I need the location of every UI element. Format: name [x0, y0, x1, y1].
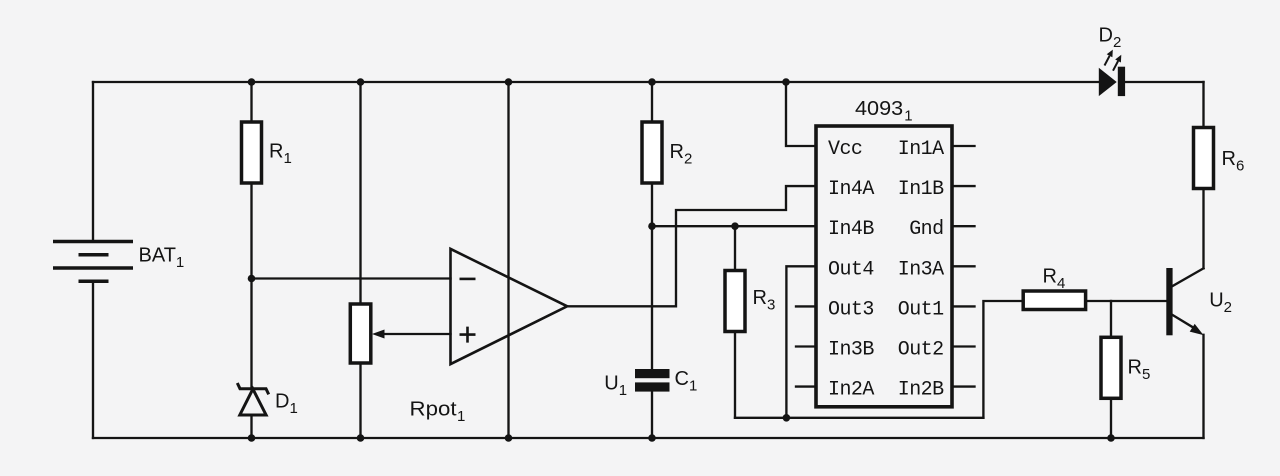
resistor R4: [1023, 291, 1085, 310]
wire top to Rpot1: [359, 82, 361, 304]
wire D1 to bottom rail: [250, 415, 252, 438]
wire top rail left of D2: [93, 81, 1099, 83]
wire R2 to C1: [651, 183, 653, 369]
wire emitter to bottom rail: [1202, 335, 1204, 438]
op-amp U1: [451, 249, 568, 364]
wire Rpot1 to bottom rail: [359, 363, 361, 438]
potentiometer Rpot1: [350, 304, 371, 363]
node dot R3 top: [731, 222, 739, 230]
pin stub In1B: [954, 185, 975, 187]
zener diode D1: [237, 383, 268, 415]
op-amp minus sign: [460, 278, 476, 281]
LED light arrows: [1105, 56, 1119, 71]
node dot R2 C1 In4B: [648, 222, 656, 230]
node dot top crossing wire: [505, 78, 513, 86]
wire collector diagonal: [1173, 268, 1204, 286]
wire top rail right of D2: [1125, 81, 1203, 83]
wire Out4 stub and drop: [786, 266, 816, 418]
wire inverting input: [252, 277, 451, 279]
battery BAT1: [53, 242, 133, 282]
wire emitter diagonal: [1173, 315, 1196, 329]
pin stub Out3: [796, 305, 816, 307]
pin stub In3B: [796, 345, 816, 347]
node dot top R1: [248, 78, 256, 86]
node dot bottom R1: [248, 434, 256, 442]
svg-text:Gnd: Gnd: [909, 218, 943, 241]
emitter arrowhead: [1190, 324, 1204, 335]
wire bottom rail: [93, 437, 1204, 439]
wire top to R1: [250, 82, 252, 122]
wire battery to bottom rail: [92, 283, 94, 438]
resistor R1: [242, 122, 262, 183]
op-amp plus sign: [460, 327, 476, 343]
wire C1 to bottom rail: [651, 392, 653, 438]
wire collector to R6: [1202, 189, 1204, 269]
wire node to R3: [734, 226, 736, 270]
node dot bottom R5: [1107, 434, 1115, 442]
wire base node to R5: [1110, 301, 1112, 337]
pin stub In3A: [954, 265, 975, 267]
node dot top Rpot1: [357, 78, 365, 86]
wire R1 to D1: [250, 183, 252, 387]
node dot bottom C1: [648, 434, 656, 442]
wire noninverting input to pot wiper: [378, 333, 451, 335]
svg-text:Out4: Out4: [828, 258, 874, 281]
svg-text:In4B: In4B: [828, 218, 874, 241]
wire R4 to base: [1086, 300, 1167, 302]
LED D2: [1099, 67, 1125, 96]
wire riser to R4: [983, 301, 1023, 418]
pin stub Out1: [954, 305, 975, 307]
IC U-4093 box: [816, 126, 952, 407]
pin stub Gnd: [954, 225, 975, 227]
resistor R3: [725, 271, 745, 332]
capacitor C1: [635, 369, 670, 392]
node dot inverting branch: [248, 275, 256, 283]
svg-text:In3B: In3B: [828, 339, 874, 362]
resistor R5: [1101, 337, 1121, 398]
svg-text:In1B: In1B: [898, 178, 944, 201]
svg-text:In3A: In3A: [898, 258, 944, 281]
wire R3 to bottom link: [734, 332, 736, 418]
wire node to In4B: [652, 225, 816, 227]
svg-text:Out1: Out1: [898, 298, 944, 321]
svg-text:Vcc: Vcc: [828, 138, 862, 161]
wire bottom link: [735, 417, 983, 419]
wire left drop to battery: [92, 82, 94, 241]
node dot bottom Rpot1: [357, 434, 365, 442]
svg-text:Out3: Out3: [828, 298, 874, 321]
svg-text:In1A: In1A: [898, 138, 944, 161]
node dot bottom crossing wire: [505, 434, 513, 442]
pin stub In1A: [954, 145, 975, 147]
wire R5 to bottom rail: [1110, 398, 1112, 438]
svg-text:In4A: In4A: [828, 178, 874, 201]
pin stub In2A: [796, 385, 816, 387]
wire op-amp output to In4A: [567, 186, 816, 306]
resistor R2: [642, 122, 662, 183]
svg-text:In2B: In2B: [898, 379, 944, 402]
svg-text:In2A: In2A: [828, 379, 874, 402]
wire vertical crossing op-amp: [507, 82, 509, 438]
resistor R6: [1194, 128, 1214, 189]
node dot top R2: [648, 78, 656, 86]
wire drop to R6: [1202, 82, 1204, 128]
pin stub Out2: [954, 345, 975, 347]
wire top rail to Vcc: [786, 82, 816, 146]
pin stub In2B: [954, 385, 975, 387]
node dot top Vcc: [782, 78, 790, 86]
transistor U2: [1166, 268, 1172, 335]
wire top to R2: [651, 82, 653, 122]
node dot Out4 bottom link: [783, 414, 791, 422]
wiper arrowhead: [372, 330, 385, 339]
svg-text:Out2: Out2: [898, 339, 944, 362]
